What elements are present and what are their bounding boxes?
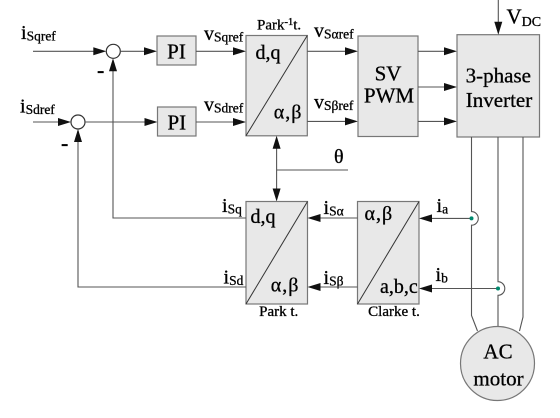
Park transform block: [246, 202, 308, 305]
wire Clarke to Park top: [311, 217, 358, 219]
wire theta vertical double arrow: [276, 138, 278, 199]
summing junction 1: [106, 44, 120, 58]
wire phase C: [520, 137, 524, 331]
svg-text:Park-1t.: Park-1t.: [257, 17, 301, 34]
wires SVPWM to inverter: [418, 50, 454, 52]
svg-text:motor: motor: [473, 367, 523, 391]
svg-text:d,q: d,q: [251, 206, 276, 228]
svg-text:θ: θ: [334, 146, 344, 168]
svg-text:-: -: [61, 130, 68, 155]
svg-text:Inverter: Inverter: [466, 88, 532, 112]
svg-text:α,β: α,β: [274, 102, 303, 124]
node VDC input: [497, 0, 499, 31]
svg-text:d,q: d,q: [256, 42, 281, 64]
wire phase B: [498, 137, 505, 327]
Clarke transform block: [358, 202, 420, 305]
3-phase inverter block: [457, 35, 540, 137]
wire Clarke to Park bottom: [311, 286, 358, 288]
AC motor: [461, 327, 535, 401]
SV PWM block: [358, 36, 418, 137]
wire iSdref input: [33, 121, 68, 123]
svg-text:AC: AC: [483, 340, 512, 364]
svg-text:3-phase: 3-phase: [466, 64, 531, 88]
svg-text:-: -: [97, 58, 104, 83]
wire feedback d: [78, 131, 246, 287]
svg-text:α,β: α,β: [271, 275, 300, 297]
wire ia sensor to Clarke: [422, 217, 472, 219]
summing junction 2: [71, 115, 85, 129]
svg-text:a,b,c: a,b,c: [380, 276, 418, 298]
svg-text:PWM: PWM: [364, 84, 415, 108]
PI controller block 1: [157, 36, 196, 65]
wire Park-1 to SVPWM bottom: [307, 120, 355, 122]
wire junction2 to PI2: [85, 121, 155, 123]
svg-text:Clarke t.: Clarke t.: [368, 304, 420, 320]
inverse Park transform block: [246, 36, 307, 136]
svg-text:PI: PI: [167, 111, 186, 135]
svg-text:Park t.: Park t.: [259, 304, 298, 320]
svg-text:α,β: α,β: [365, 203, 394, 225]
wire PI1 to Park-1: [196, 50, 243, 52]
svg-text:SV: SV: [375, 62, 402, 86]
wire ib sensor to Clarke: [422, 288, 498, 290]
wire iSqref input: [33, 50, 103, 52]
current sensor B: [496, 287, 500, 291]
wire feedback q: [113, 60, 246, 218]
wire phase A: [472, 137, 479, 331]
wire Park-1 to SVPWM top: [307, 50, 355, 52]
PI controller block 2: [158, 107, 197, 136]
current sensor A: [470, 216, 474, 220]
wire junction1 to PI1: [120, 50, 154, 52]
wire theta: [277, 169, 348, 171]
wire PI2 to Park-1: [196, 121, 243, 123]
svg-text:PI: PI: [167, 40, 186, 64]
